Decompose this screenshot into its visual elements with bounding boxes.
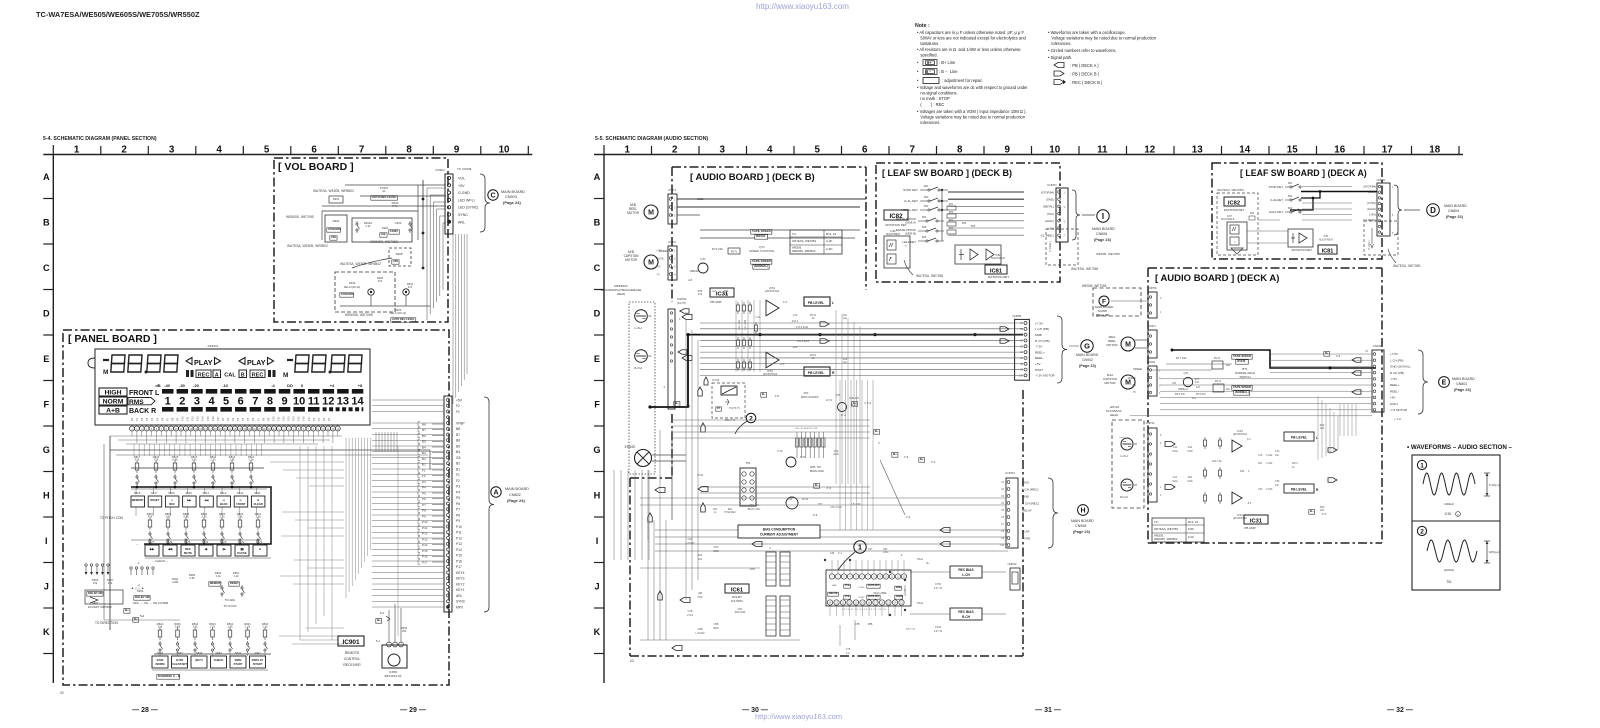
svg-text:DELAY(30-1k): DELAY(30-1k) (344, 285, 361, 289)
svg-text:Voltage variations may be note: Voltage variations may be noted due to n… (917, 115, 1026, 120)
svg-text:: REC ( DECK B ): : REC ( DECK B ) (1070, 80, 1103, 85)
svg-text:P6: P6 (456, 502, 460, 506)
svg-text:TC-: TC- (1154, 520, 1159, 524)
svg-text:P0: P0 (312, 417, 316, 421)
svg-text:6.3: 6.3 (783, 300, 787, 304)
svg-text:PB LEVEL: PB LEVEL (808, 301, 825, 305)
svg-text:REC BIAS: REC BIAS (958, 610, 973, 614)
svg-text:7.4: 7.4 (904, 455, 909, 459)
svg-text:P8: P8 (170, 417, 174, 421)
svg-text:C65: C65 (830, 552, 835, 555)
svg-text:6.8K: 6.8K (1188, 527, 1194, 531)
svg-text:SYNCHRO: SYNCHRO (341, 292, 354, 296)
svg-text:MEMORY: MEMORY (210, 581, 222, 585)
svg-text:METAL DET: METAL DET (901, 208, 918, 212)
svg-text:4-8: 4-8 (688, 278, 692, 282)
svg-text:S845: S845 (176, 651, 183, 655)
svg-text:L CH (PB): L CH (PB) (1035, 327, 1049, 331)
svg-text:SYNC: SYNC (456, 600, 466, 604)
svg-text:tolerances.: tolerances. (917, 120, 940, 125)
svg-text:HIGH: HIGH (1035, 368, 1043, 372)
svg-text:SPEED CONTROL: SPEED CONTROL (749, 249, 775, 253)
svg-text:R76: R76 (868, 623, 873, 626)
svg-text:F1: F1 (456, 410, 460, 414)
svg-text:ERASE: ERASE (625, 445, 636, 449)
svg-text:R16 1.5k: R16 1.5k (1212, 460, 1222, 463)
svg-text:REC: REC (252, 373, 264, 379)
svg-text:B: B (594, 217, 601, 227)
svg-text:• Signal path.: • Signal path. (1048, 55, 1072, 60)
svg-text:-2.AF: -2.AF (1022, 529, 1030, 533)
svg-text:T51: T51 (1446, 580, 1452, 584)
svg-text:100u: 100u (1172, 480, 1178, 483)
svg-text:MAIN BOARD: MAIN BOARD (1092, 227, 1115, 231)
svg-text:▶▶: ▶▶ (149, 547, 155, 551)
svg-text:CN802: CN802 (509, 493, 521, 497)
svg-text:P15: P15 (297, 416, 301, 421)
svg-text:5-5. SCHEMATIC DIAGRAM (AUDIO: 5-5. SCHEMATIC DIAGRAM (AUDIO SECTION) (595, 136, 708, 142)
svg-text:C12: C12 (793, 314, 798, 317)
svg-text:CN804: CN804 (1448, 209, 1459, 213)
svg-text:PB AMP: PB AMP (1244, 526, 1255, 530)
svg-text:KEY3: KEY3 (456, 577, 465, 581)
svg-text:+5V: +5V (458, 184, 465, 188)
svg-text:1: 1 (625, 144, 631, 155)
svg-text:C15: C15 (1275, 450, 1280, 453)
svg-text:WE505, WE7055: WE505, WE7055 (1082, 284, 1107, 288)
svg-text:5-40: 5-40 (800, 455, 806, 459)
svg-text:R64: R64 (949, 227, 954, 230)
svg-text:MAIN BOARD: MAIN BOARD (1444, 204, 1467, 208)
svg-text:ARL: ARL (458, 220, 465, 224)
svg-text:PB LEVEL: PB LEVEL (1291, 488, 1307, 492)
svg-text:P14: P14 (292, 416, 296, 421)
svg-text:A: A (43, 172, 50, 182)
svg-text:B−: B− (815, 483, 819, 487)
svg-text:J: J (44, 581, 49, 591)
svg-text:-1: -1 (137, 561, 140, 565)
svg-text:P6: P6 (251, 417, 255, 421)
svg-text:(CL REEL): (CL REEL) (1041, 234, 1054, 238)
svg-text:http://www.xiaoyu163.com: http://www.xiaoyu163.com (756, 2, 849, 11)
svg-text:10u: 10u (843, 317, 848, 320)
svg-text:C13: C13 (1258, 454, 1263, 457)
svg-text:100: 100 (1320, 427, 1325, 430)
svg-text:B+: B+ (675, 401, 679, 405)
svg-text:(GND): (GND) (1368, 190, 1376, 194)
svg-text:TC-: TC- (792, 232, 797, 236)
svg-text:P13: P13 (287, 416, 291, 421)
svg-text:(Page 23): (Page 23) (1446, 215, 1464, 219)
svg-text:S61: S61 (1288, 182, 1293, 185)
svg-text:GND (SIGNAL): GND (SIGNAL) (1390, 365, 1411, 369)
svg-text:MUTE DET: MUTE DET (868, 585, 880, 587)
svg-text:(BCT): (BCT) (195, 658, 202, 662)
svg-text:A: A (493, 490, 498, 497)
svg-text:(GND): (GND) (1046, 198, 1054, 202)
svg-text:2.2k: 2.2k (366, 224, 372, 228)
svg-text:0.47 10: 0.47 10 (934, 587, 943, 590)
svg-text:+7.5V: +7.5V (1390, 352, 1398, 356)
svg-text:-40: -40 (164, 383, 171, 388)
svg-text:TAPE SPEED: TAPE SPEED (752, 259, 772, 263)
svg-text:M: M (103, 369, 108, 376)
svg-text:[ PANEL BOARD ]: [ PANEL BOARD ] (68, 333, 157, 345)
svg-text:GNB: GNB (1022, 494, 1029, 498)
svg-text:EXCEPT WR550Z: EXCEPT WR550Z (88, 605, 112, 609)
svg-text:B+: B+ (125, 608, 129, 612)
svg-text:470: 470 (378, 279, 383, 283)
svg-text:3: 3 (194, 396, 200, 408)
svg-text:TC-WA7ESA/WE505/WE605S/WE705S/: TC-WA7ESA/WE505/WE605S/WE705S/WR550Z (36, 10, 200, 19)
svg-text:PAUSE: PAUSE (237, 551, 247, 555)
svg-text:B−: B− (762, 392, 766, 396)
svg-text:WA7ESA, WE7055: WA7ESA, WE7055 (1071, 267, 1098, 271)
svg-text:P13: P13 (456, 542, 462, 546)
svg-text:μPC4570G2: μPC4570G2 (765, 289, 780, 293)
svg-text:9: 9 (1005, 144, 1011, 155)
svg-text:(SIDE A): (SIDE A) (905, 221, 916, 225)
svg-text:M: M (1125, 380, 1131, 387)
svg-text:1.2k: 1.2k (215, 574, 221, 578)
svg-text:AUTO REC LEVEL: AUTO REC LEVEL (372, 195, 397, 199)
svg-text:HALF DET: HALF DET (1269, 210, 1283, 214)
svg-text:RV71: RV71 (731, 250, 738, 254)
svg-text:WE605S, WR5502: WE605S, WR5502 (1154, 537, 1178, 541)
svg-text:10: 10 (1049, 144, 1060, 155)
svg-text:3.3k: 3.3k (201, 515, 207, 519)
svg-text:C21: C21 (1173, 476, 1178, 479)
svg-text:MUTE DET: MUTE DET (868, 596, 880, 598)
svg-text:MAIN BOARD: MAIN BOARD (505, 487, 529, 491)
svg-text:A: A (215, 373, 219, 379)
svg-text:TYPE: TYPE (1022, 536, 1030, 540)
svg-text:C1A: C1A (756, 316, 761, 319)
svg-text:/START: /START (253, 662, 263, 666)
svg-text:G.GND: G.GND (458, 191, 470, 195)
svg-text:6800: 6800 (713, 550, 719, 553)
svg-text:— 31 —: — 31 — (1035, 707, 1061, 714)
svg-text:C6?: C6? (868, 548, 873, 551)
svg-text:A+B: A+B (106, 408, 120, 415)
svg-text:P13: P13 (196, 416, 200, 421)
svg-text:CN902: CN902 (1082, 358, 1093, 362)
svg-text:TUNE REC: TUNE REC (724, 512, 736, 514)
svg-text:MOTOR: MOTOR (1104, 381, 1116, 385)
svg-text:WE605S, WE705S: WE605S, WE705S (345, 313, 374, 317)
svg-text:P0: P0 (130, 417, 134, 421)
svg-text:CNP81: CNP81 (1012, 314, 1022, 318)
svg-text:R CH (PB): R CH (PB) (1390, 371, 1404, 375)
svg-text:S844: S844 (196, 651, 203, 655)
svg-text:B−: B− (875, 429, 879, 433)
svg-text:10: 10 (499, 144, 510, 155)
svg-text:15k: 15k (158, 625, 163, 629)
svg-text:CHECK: CHECK (214, 658, 224, 662)
svg-text:D: D (594, 308, 601, 318)
svg-text:B4: B4 (456, 450, 460, 454)
svg-text:1.5k: 1.5k (227, 625, 233, 629)
svg-text:ARL: ARL (456, 594, 463, 598)
svg-text:P2: P2 (322, 417, 326, 421)
svg-text:E: E (43, 354, 49, 364)
svg-text:R?: R? (717, 407, 721, 410)
svg-text:1.2k: 1.2k (248, 458, 254, 462)
svg-text:I: I (1102, 212, 1104, 221)
svg-text:• Voltage and waveforms are dc: • Voltage and waveforms are dc with resp… (917, 85, 1028, 90)
svg-text:C8A: C8A (714, 546, 719, 549)
svg-text:TRA1: TRA1 (917, 558, 924, 561)
svg-text:S817: S817 (151, 491, 158, 495)
svg-text:SPEED: SPEED (1133, 367, 1142, 371)
svg-text:2.7k: 2.7k (210, 458, 216, 462)
svg-text:P14: P14 (456, 548, 462, 552)
svg-text:P8: P8 (261, 417, 265, 421)
svg-text:CN908: CN908 (1075, 524, 1086, 528)
svg-text:WA7ESA, WE7055: WA7ESA, WE7055 (916, 274, 943, 278)
svg-text:– CHECK –: – CHECK – (152, 559, 168, 563)
svg-text:S927: S927 (148, 540, 155, 544)
svg-text:P9: P9 (266, 417, 270, 421)
svg-text:SWITCH: SWITCH (1239, 375, 1250, 379)
svg-text:14: 14 (351, 396, 364, 408)
svg-text:C10: C10 (1019, 375, 1024, 377)
svg-text:C+D₂DET: C+D₂DET (1270, 198, 1283, 202)
svg-text:CN806: CN806 (1096, 232, 1107, 236)
svg-text:S66: S66 (922, 235, 927, 239)
svg-text:R74 47k: R74 47k (1196, 392, 1206, 396)
svg-text:WE605S, WE705S: WE605S, WE705S (370, 240, 399, 244)
svg-text:WA7ESA, WE705S: WA7ESA, WE705S (1393, 264, 1421, 268)
svg-text:S64: S64 (922, 215, 927, 219)
svg-text:P16: P16 (456, 559, 462, 563)
svg-text:220k: 220k (833, 453, 839, 456)
svg-text:15: 15 (1287, 144, 1298, 155)
svg-text:S921: S921 (256, 540, 263, 544)
svg-text:RY31: RY31 (713, 378, 720, 382)
svg-text:B6: B6 (456, 439, 460, 443)
svg-text:P17: P17 (456, 565, 462, 569)
svg-text:□ 7-4: □ 7-4 (1394, 417, 1401, 421)
svg-text:72k: 72k (154, 458, 159, 462)
svg-text:HX-PRO: HX-PRO (731, 599, 743, 603)
svg-text:P12: P12 (282, 416, 286, 421)
svg-text:6: 6 (238, 396, 244, 408)
svg-text:F: F (43, 399, 49, 409)
svg-text:(Page 23): (Page 23) (1079, 364, 1097, 368)
svg-text:VFBP: VFBP (456, 421, 465, 425)
svg-text:P5: P5 (456, 496, 460, 500)
svg-text:(100Hz): (100Hz) (1444, 568, 1454, 572)
svg-text:F1: F1 (456, 473, 460, 477)
svg-text:6.8k: 6.8k (183, 515, 189, 519)
svg-text:: B+ Line: : B+ Line (939, 60, 956, 65)
svg-text:CN801: CN801 (1456, 382, 1467, 386)
svg-text:-7.5: -7.5 (774, 394, 779, 398)
svg-text:R77 22k: R77 22k (1176, 356, 1187, 360)
svg-text:E: E (1442, 380, 1447, 387)
svg-text:RESET: RESET (230, 581, 239, 585)
svg-text:R91: R91 (728, 508, 733, 511)
svg-text:-7.5 MOTOR: -7.5 MOTOR (1390, 408, 1408, 412)
svg-text:CURRENT ADJUSTMENT: CURRENT ADJUSTMENT (760, 533, 798, 537)
svg-text:100k: 100k (1187, 480, 1193, 483)
svg-text:P2: P2 (231, 417, 235, 421)
svg-text:TRA2: TRA2 (917, 602, 924, 605)
svg-text:DD: DD (287, 383, 293, 388)
svg-text:R14, 24: R14, 24 (1188, 520, 1199, 524)
svg-text:— 29 —: — 29 — (400, 707, 426, 714)
svg-text:L.00132: L.00132 (695, 632, 705, 635)
svg-text:-7.4: -7.4 (812, 513, 818, 517)
svg-text:S902: S902 (349, 281, 356, 285)
svg-text:R69: R69 (1250, 213, 1255, 215)
svg-text:(METAL): (METAL) (1043, 205, 1054, 209)
svg-text:RESET: RESET (150, 498, 159, 502)
svg-text:S84A: S84A (157, 651, 164, 655)
svg-text:S61: S61 (924, 184, 929, 188)
svg-text:P3: P3 (327, 417, 331, 421)
svg-text:-7V: -7V (1132, 391, 1136, 394)
svg-text:-30: -30 (179, 383, 186, 388)
svg-text:(HALF): (HALF) (1045, 219, 1054, 223)
svg-text:— 30 —: — 30 — (742, 707, 768, 714)
svg-text:L: L (832, 301, 834, 305)
svg-text:S841: S841 (254, 651, 261, 655)
svg-text:B5: B5 (456, 444, 460, 448)
svg-text:BIAS CONSUMPTION: BIAS CONSUMPTION (763, 528, 796, 532)
svg-text:P12: P12 (191, 416, 195, 421)
svg-text:: PB ( DECK B ): : PB ( DECK B ) (1070, 72, 1100, 77)
svg-text:C4906: C4906 (390, 229, 398, 233)
svg-text:100u: 100u (1172, 450, 1178, 453)
svg-text:P10: P10 (181, 416, 185, 421)
svg-text:IC82: IC82 (1228, 201, 1240, 207)
svg-text:TO ARL: TO ARL (225, 598, 236, 602)
svg-text:IN1046: IN1046 (756, 234, 765, 238)
svg-text:■: ■ (259, 547, 261, 551)
svg-text:10k: 10k (381, 232, 386, 236)
svg-text:1RV(p-p): 1RV(p-p) (1489, 550, 1500, 554)
svg-text:C933: C933 (395, 221, 402, 225)
svg-text:HEAD: HEAD (617, 292, 626, 296)
svg-text:S901: S901 (332, 219, 339, 223)
svg-text:-7.4: -7.4 (826, 486, 831, 490)
svg-text:14: 14 (1239, 144, 1250, 155)
svg-text:HEAD: HEAD (1110, 413, 1119, 417)
svg-text:5: 5 (815, 144, 821, 155)
svg-text:μCOM57A: μCOM57A (904, 585, 907, 596)
svg-text:-7.5V: -7.5V (1035, 345, 1043, 349)
svg-text:CN903: CN903 (435, 168, 445, 172)
svg-text:• Waveforms are taken with a o: • Waveforms are taken with a oscilloscop… (1048, 30, 1126, 35)
svg-text:C+D₄ DET: C+D₄ DET (904, 199, 918, 203)
svg-text:P3: P3 (456, 485, 460, 489)
svg-text:8: 8 (267, 396, 273, 408)
svg-text:R11 100k: R11 100k (744, 319, 747, 330)
svg-text:(SJ-7P): (SJ-7P) (677, 301, 686, 305)
svg-text:1: 1 (858, 543, 862, 552)
svg-text:5-2: 5-2 (380, 611, 385, 615)
svg-text:— 28 —: — 28 — (132, 707, 158, 714)
svg-text:D: D (43, 308, 50, 318)
svg-text:C766: C766 (935, 626, 942, 629)
svg-text:P5: P5 (246, 417, 250, 421)
svg-text:REMOTE: REMOTE (345, 651, 360, 655)
svg-text:P1: P1 (317, 417, 321, 421)
svg-text:no-signal conditions.: no-signal conditions. (917, 91, 958, 96)
svg-text:3: 3 (720, 144, 726, 155)
svg-text:ARL: ARL (393, 259, 399, 263)
svg-text:( ) : REC: ( ) : REC (917, 102, 944, 107)
svg-text:3.3k: 3.3k (192, 625, 198, 629)
svg-text:D: D (1430, 206, 1436, 215)
svg-text:RF8901: RF8901 (208, 344, 219, 348)
svg-text:+5V: +5V (1035, 362, 1042, 366)
svg-text:F2: F2 (456, 404, 460, 408)
svg-text:W-40: W-40 (802, 497, 809, 501)
svg-text:• Voltages are taken with a VO: • Voltages are taken with a VOM ( Input … (917, 109, 1027, 114)
svg-text:P1: P1 (135, 417, 139, 421)
svg-text:R11: R11 (1188, 446, 1193, 449)
svg-text:HALF DET: HALF DET (902, 240, 916, 244)
svg-text:KEY2: KEY2 (456, 582, 465, 586)
svg-text:PEAK ABBE: PEAK ABBE (873, 592, 887, 595)
svg-text:47k: 47k (148, 515, 153, 519)
svg-text:[ AUDIO BOARD ] (DECK B): [ AUDIO BOARD ] (DECK B) (690, 172, 815, 183)
svg-text:[ LEAF SW BOARD ] (DECK A): [ LEAF SW BOARD ] (DECK A) (1240, 168, 1367, 178)
svg-text:47k: 47k (135, 458, 140, 462)
svg-text:MAIN BOARD: MAIN BOARD (1071, 519, 1094, 523)
svg-text:S816: S816 (168, 491, 175, 495)
svg-text:18: 18 (1429, 144, 1440, 155)
svg-text:13: 13 (337, 396, 349, 408)
svg-text:MODE: MODE (896, 596, 903, 598)
svg-text:M: M (1125, 342, 1131, 349)
svg-text:270k: 270k (697, 596, 703, 599)
svg-text:P6: P6 (160, 417, 164, 421)
svg-text:PLAY: PLAY (194, 358, 213, 367)
svg-text:ROTATION DET: ROTATION DET (1292, 248, 1313, 252)
svg-text:S924: S924 (202, 540, 209, 544)
svg-text:+8: +8 (358, 383, 363, 388)
svg-text:WE605S, WR5502: WE605S, WR5502 (792, 249, 816, 253)
svg-text:P11: P11 (276, 416, 280, 421)
svg-text:C78: C78 (846, 648, 851, 651)
svg-text:DELAY(30-1k): DELAY(30-1k) (390, 311, 407, 315)
svg-text:REC BIAS: REC BIAS (958, 568, 973, 572)
svg-text:MJL8748E-B: MJL8748E-B (886, 233, 900, 236)
svg-text:(mm): (mm) (1119, 437, 1124, 439)
svg-text:R73 47k: R73 47k (1175, 392, 1185, 396)
svg-text:C54: C54 (788, 498, 793, 501)
svg-text:BIAS ON/OFF: BIAS ON/OFF (801, 395, 819, 399)
svg-text:16: 16 (1334, 144, 1345, 155)
svg-text:BACK: BACK (220, 502, 228, 506)
svg-text:tolerances.: tolerances. (1048, 41, 1071, 46)
svg-text:no mark : STOP: no mark : STOP (917, 96, 950, 101)
svg-text:100k: 100k (1187, 450, 1193, 453)
svg-text:5-2: 5-2 (140, 614, 145, 618)
svg-text:(STOP.B4): (STOP.B4) (1041, 190, 1054, 194)
svg-text:B: B (43, 217, 50, 227)
svg-text:C11: C11 (1173, 446, 1178, 449)
svg-text:TAPE SPEED: TAPE SPEED (1233, 385, 1251, 389)
svg-text:M: M (648, 260, 654, 267)
svg-text:P7: P7 (256, 417, 260, 421)
svg-text:R65: R65 (962, 222, 967, 225)
svg-text:4-2: 4-2 (1192, 396, 1196, 400)
